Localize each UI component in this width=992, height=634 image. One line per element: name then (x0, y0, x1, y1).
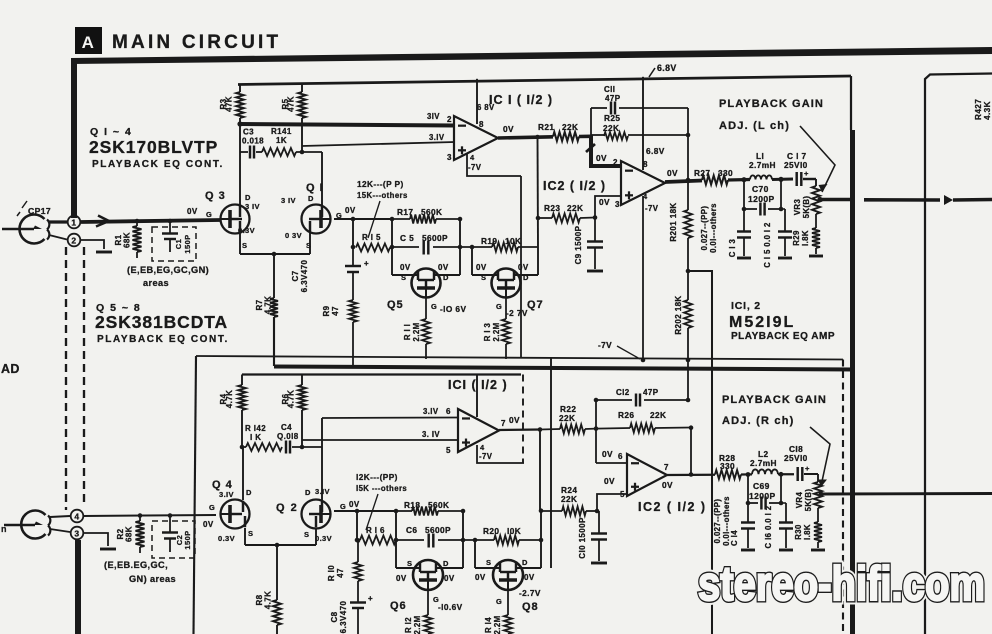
svg-text:C4: C4 (281, 423, 292, 432)
svg-text:G: G (340, 502, 346, 511)
svg-text:0V: 0V (349, 500, 360, 509)
svg-text:6.8V: 6.8V (657, 63, 677, 73)
svg-text:IC2 ( I/2 ): IC2 ( I/2 ) (543, 179, 606, 193)
Q4 drain wire (242, 447, 244, 500)
svg-text:stereo-hifi.com: stereo-hifi.com (698, 558, 985, 611)
capacitor C69 1200P row (747, 475, 749, 504)
6.8V stub to IC1 (476, 79, 478, 124)
svg-text:25VI0: 25VI0 (784, 453, 808, 463)
svg-text:3.IV: 3.IV (219, 490, 234, 499)
resistor R7 4.7K (273, 254, 275, 298)
svg-text:2.2M: 2.2M (412, 323, 421, 342)
pin5 wire from R6 (302, 439, 458, 441)
svg-text:D: D (443, 273, 449, 282)
svg-text:4: 4 (74, 512, 79, 522)
svg-text:S: S (242, 241, 247, 250)
svg-text:S: S (481, 273, 486, 282)
svg-text:R29: R29 (792, 230, 801, 246)
thick common bus (274, 365, 855, 372)
svg-text:22K: 22K (650, 410, 666, 420)
svg-text:0V: 0V (604, 476, 615, 486)
svg-text:2.7mH: 2.7mH (749, 160, 776, 170)
svg-text:R I42: R I42 (245, 424, 266, 433)
op-amp IC1 1/2 L (454, 116, 498, 160)
svg-text:2.2M: 2.2M (413, 616, 422, 634)
svg-text:2: 2 (613, 158, 618, 167)
svg-text:C I6 0.0 I 2: C I6 0.0 I 2 (764, 505, 773, 548)
svg-text:D: D (245, 193, 251, 202)
svg-text:3 IV: 3 IV (281, 196, 296, 205)
resistor R11 2.2M (425, 297, 427, 319)
right block box edge (925, 74, 992, 634)
IC1 pin4 connector (467, 154, 521, 176)
ground from node 2 (80, 240, 104, 249)
svg-text:C I 5 0.0 I 2: C I 5 0.0 I 2 (763, 222, 772, 268)
C5 box left vertical (391, 219, 393, 275)
svg-text:5600P: 5600P (422, 233, 448, 243)
pin4 column to -7V bus (642, 196, 644, 360)
svg-text:47K: 47K (287, 96, 296, 112)
svg-text:Q6: Q6 (390, 600, 407, 612)
svg-text:PLAYBACK EQ AMP: PLAYBACK EQ AMP (731, 331, 835, 342)
svg-text:47: 47 (331, 306, 340, 316)
svg-text:R19: R19 (481, 236, 497, 246)
resistor R12 2.2M (427, 590, 429, 615)
Q7 box right vertical (537, 247, 539, 275)
svg-text:G: G (431, 302, 437, 311)
svg-text:2.2M: 2.2M (493, 616, 502, 634)
transistor Q3 (221, 205, 250, 234)
svg-text:D: D (246, 488, 252, 497)
svg-text:Q 2: Q 2 (276, 502, 298, 514)
watermark stereo-hifi.com (698, 558, 985, 611)
svg-text:R I4: R I4 (484, 617, 493, 633)
node 3 (71, 527, 84, 540)
svg-text:IC I ( I/2 ): IC I ( I/2 ) (489, 93, 553, 107)
svg-text:R26: R26 (618, 410, 634, 420)
svg-text:0V: 0V (396, 574, 407, 583)
branch wire to R-ch C12 row (688, 271, 712, 634)
svg-text:0V: 0V (203, 520, 214, 529)
6.8V feed line to IC2 pin8 (642, 77, 644, 170)
svg-text:4.3K: 4.3K (983, 101, 992, 120)
dashed link lines between channels (65, 247, 67, 510)
output column to gate row (537, 137, 540, 247)
svg-text:PLAYBACK EQ CONT.: PLAYBACK EQ CONT. (97, 334, 229, 345)
svg-text:2: 2 (447, 115, 452, 124)
dashed column to rail R (522, 375, 524, 464)
wire R23 to pin3 (595, 196, 621, 218)
svg-text:47: 47 (336, 568, 345, 578)
svg-text:22K: 22K (559, 413, 575, 423)
svg-text:5K(B): 5K(B) (804, 489, 813, 512)
svg-text:2: 2 (71, 236, 76, 246)
channel box right edge vertical dashed (842, 360, 844, 634)
inner box right edge vertical (850, 76, 852, 130)
svg-text:0V: 0V (524, 573, 535, 582)
svg-text:C8: C8 (330, 611, 339, 622)
column R6 4.7K (301, 375, 303, 386)
svg-text:0V: 0V (509, 415, 520, 425)
svg-text:AD: AD (1, 362, 20, 376)
svg-text:C6: C6 (406, 525, 417, 535)
svg-text:C I4: C I4 (730, 530, 739, 546)
svg-text:3.IV: 3.IV (429, 133, 445, 142)
node 2 (68, 234, 81, 247)
capacitor C7 6.3V470 polarized (352, 247, 354, 265)
svg-text:4.7K: 4.7K (264, 591, 273, 610)
svg-text:4.7K: 4.7K (287, 390, 296, 409)
svg-text:0V: 0V (503, 124, 514, 134)
wires jack to nodes (49, 220, 67, 223)
svg-text:-IO 6V: -IO 6V (440, 304, 466, 314)
svg-text:68K: 68K (125, 526, 134, 542)
svg-text:M52I9L: M52I9L (729, 314, 795, 331)
signal wire R input (83, 515, 216, 516)
capacitor C2 150P dashed box (152, 521, 195, 558)
svg-text:R20: R20 (483, 526, 499, 536)
section label box A (75, 27, 102, 54)
transistor Q8 with box (475, 567, 500, 569)
resistor R9 47 (352, 272, 354, 300)
svg-text:4: 4 (470, 153, 475, 162)
potentiometer VR4 5K B (817, 474, 819, 482)
svg-text:C9 1500P: C9 1500P (574, 225, 583, 264)
op-amp IC2 1/2 R (627, 454, 667, 496)
svg-text:CI0 1500P: CI0 1500P (578, 517, 587, 559)
svg-text:+: + (804, 169, 809, 178)
capacitor C8 6.3V470 (357, 581, 359, 602)
R output line (821, 492, 992, 495)
svg-text:C 5: C 5 (400, 233, 414, 243)
R26 column to output row (690, 428, 692, 475)
6.8V stub to IC1R (476, 375, 478, 418)
wire source row Q3-Q1 (239, 233, 241, 254)
svg-text:G: G (496, 302, 502, 311)
svg-text:12K---(P P): 12K---(P P) (357, 179, 404, 189)
svg-text:I.8K: I.8K (803, 524, 812, 540)
C5 box right vertical (459, 219, 461, 275)
svg-text:PLAYBACK GAIN: PLAYBACK GAIN (719, 98, 824, 110)
svg-text:4: 4 (480, 443, 485, 452)
svg-text:PLAYBACK GAIN: PLAYBACK GAIN (722, 394, 827, 406)
svg-text:+: + (368, 594, 373, 603)
svg-text:VR4: VR4 (795, 492, 804, 509)
svg-text:Q7: Q7 (527, 299, 544, 311)
svg-text:Q5: Q5 (387, 299, 404, 311)
column IC1 pin4 to -7V bus (520, 176, 522, 358)
svg-text:0V: 0V (602, 449, 613, 459)
gate row wire L (334, 218, 392, 220)
thick corner into IC2 pin2 (589, 135, 621, 168)
svg-text:5: 5 (620, 490, 625, 499)
svg-text:6.8V: 6.8V (646, 146, 665, 156)
IC2R output wire (667, 474, 715, 477)
resistor R29 1.8K (812, 228, 820, 248)
op-amp IC2 1/2 L (621, 161, 665, 205)
column R3 47K (239, 85, 241, 93)
supply rail 6.8V top (238, 76, 851, 85)
capacitor C13 (743, 209, 745, 231)
svg-text:-7V: -7V (598, 340, 612, 350)
svg-text:R I 5: R I 5 (362, 233, 381, 242)
Q2 drain column (321, 447, 323, 500)
svg-text:R30: R30 (794, 524, 803, 540)
svg-text:S: S (401, 273, 406, 282)
svg-text:2SK170BLVTP: 2SK170BLVTP (89, 137, 218, 157)
pin6 jog column (595, 400, 597, 463)
svg-text:0.0I---others: 0.0I---others (722, 496, 731, 546)
svg-text:-2 7V: -2 7V (506, 308, 528, 318)
transistor Q2 (302, 500, 331, 529)
svg-text:R141: R141 (271, 127, 292, 136)
wire Q1 drain column (321, 152, 323, 205)
transistor Q6 with box (396, 567, 420, 569)
svg-text:D: D (522, 558, 528, 567)
svg-text:Q 3: Q 3 (205, 190, 226, 202)
svg-text:D: D (523, 273, 529, 282)
op-amp IC1 1/2 R (458, 409, 499, 452)
column to R16 (356, 511, 358, 540)
capacitor C10 1500P (598, 511, 600, 533)
svg-text:2SK381BCDTA: 2SK381BCDTA (95, 312, 228, 332)
svg-text:CII: CII (604, 85, 615, 94)
transistor Q5 with box (392, 274, 418, 276)
connector jack R (21, 510, 45, 538)
svg-text:S: S (248, 529, 253, 538)
svg-text:0V: 0V (438, 263, 449, 272)
svg-text:3IV: 3IV (427, 112, 440, 121)
svg-text:ICI, 2: ICI, 2 (731, 300, 761, 312)
svg-text:8: 8 (643, 160, 648, 169)
svg-text:C70: C70 (752, 184, 769, 194)
svg-text:0V: 0V (662, 480, 673, 490)
svg-text:I.8K: I.8K (801, 230, 810, 246)
svg-text:I5K ---others: I5K ---others (356, 484, 407, 493)
C6 box right vertical (462, 511, 464, 568)
svg-text:68K: 68K (123, 232, 132, 248)
svg-text:7: 7 (501, 419, 506, 428)
svg-text:4.7K: 4.7K (264, 296, 273, 315)
svg-text:1: 1 (71, 218, 76, 228)
svg-text:ADJ. (R ch): ADJ. (R ch) (722, 415, 794, 427)
svg-text:G: G (206, 210, 212, 219)
gate row wire R (334, 510, 396, 512)
svg-text:150P: 150P (183, 530, 192, 549)
svg-text:22K: 22K (561, 494, 577, 504)
signal wire L input thick (81, 220, 220, 222)
svg-text:C I 3: C I 3 (728, 239, 737, 258)
svg-text:VR3: VR3 (793, 199, 802, 216)
transistor Q4 (221, 500, 250, 529)
adj arrow to VR3 wiper (800, 126, 835, 192)
svg-text:1K: 1K (276, 136, 287, 145)
svg-text:0.3V: 0.3V (218, 534, 235, 543)
svg-text:5K(B): 5K(B) (802, 196, 811, 219)
svg-text:0V: 0V (475, 573, 486, 582)
svg-text:0V: 0V (444, 574, 455, 583)
IC2 output thick wire (665, 181, 702, 183)
wire R202 bottom to C12 row (687, 360, 689, 400)
svg-text:4.7K: 4.7K (225, 390, 234, 409)
resistor R14 2.2M (507, 590, 509, 615)
svg-text:S: S (407, 559, 412, 568)
column R5 47K (301, 84, 303, 92)
IC1R pin4 connector (477, 445, 524, 463)
svg-text:(E,EB.EG,GC,: (E,EB.EG,GC, (104, 560, 168, 570)
bottom channel supply rail (242, 373, 521, 375)
svg-text:I0K: I0K (507, 526, 521, 536)
svg-text:S: S (304, 530, 309, 539)
svg-text:5: 5 (446, 446, 451, 455)
svg-text:R201 18K: R201 18K (669, 202, 678, 241)
svg-text:7: 7 (664, 463, 669, 472)
svg-text:-I0.6V: -I0.6V (438, 602, 463, 612)
svg-text:R427: R427 (974, 99, 983, 120)
outer border left thick (71, 58, 77, 218)
wire Q3 drain column (239, 124, 241, 205)
capacitor C70 1200P row (743, 180, 745, 209)
svg-text:330: 330 (718, 168, 733, 178)
L output line dashed thick (820, 198, 852, 202)
capacitor C15 0.012 (781, 208, 785, 210)
svg-text:I K: I K (250, 433, 261, 442)
svg-text:3: 3 (615, 200, 620, 209)
svg-text:-7V: -7V (479, 452, 493, 461)
svg-text:S: S (486, 558, 491, 567)
svg-text:A: A (82, 33, 95, 52)
svg-text:C69: C69 (753, 481, 770, 491)
svg-text:Q I: Q I (306, 182, 324, 194)
svg-text:47P: 47P (643, 388, 659, 397)
svg-text:6.3V470: 6.3V470 (339, 601, 348, 634)
svg-text:0.3V: 0.3V (315, 534, 332, 543)
svg-text:C7: C7 (291, 270, 300, 281)
svg-text:n: n (1, 524, 7, 534)
source row Q4-Q2 (244, 528, 246, 545)
svg-text:3.IV: 3.IV (423, 407, 439, 416)
svg-text:D: D (305, 488, 311, 497)
resistor R10 47 (356, 538, 361, 543)
svg-text:Q.0I8: Q.0I8 (277, 432, 299, 441)
svg-text:CI2: CI2 (616, 388, 630, 397)
channel box left edge vertical (194, 356, 197, 634)
svg-text:3 IV: 3 IV (245, 202, 260, 211)
svg-text:R I 3: R I 3 (483, 323, 492, 342)
svg-text:0.0I---others: 0.0I---others (709, 203, 718, 253)
svg-text:R23: R23 (544, 203, 560, 213)
svg-text:G: G (209, 503, 215, 512)
svg-text:0.027--(PP): 0.027--(PP) (700, 206, 709, 251)
svg-text:R I2: R I2 (404, 617, 413, 633)
svg-text:+: + (364, 259, 369, 268)
svg-text:0V: 0V (667, 168, 678, 178)
svg-text:22K: 22K (567, 203, 583, 213)
svg-text:IC2 ( I/2 ): IC2 ( I/2 ) (638, 500, 707, 514)
svg-text:R9: R9 (322, 305, 331, 316)
C6 box left vertical (395, 511, 397, 568)
svg-text:6.3V470: 6.3V470 (300, 260, 309, 293)
pin5 jog R (597, 494, 627, 511)
svg-text:3.IV: 3.IV (315, 487, 330, 496)
svg-text:0V: 0V (599, 197, 610, 207)
transistor Q1 (302, 205, 331, 234)
adj arrow to VR4 wiper (810, 427, 830, 486)
svg-text:8: 8 (479, 120, 484, 129)
svg-text:0V: 0V (476, 263, 487, 272)
svg-text:0V: 0V (596, 153, 607, 163)
svg-text:C3: C3 (243, 128, 254, 137)
svg-text:C1: C1 (174, 239, 183, 249)
pin6 wire (321, 418, 323, 447)
svg-text:CP17: CP17 (28, 206, 51, 216)
svg-text:Q8: Q8 (522, 601, 539, 613)
outer border left lower thick segment (75, 540, 81, 634)
capacitor C1 150P dashed box (152, 227, 196, 261)
svg-text:R21: R21 (538, 122, 554, 132)
svg-text:2.7mH: 2.7mH (750, 458, 777, 468)
thick trace to IC1 pin2 (240, 124, 455, 126)
-7V mid bus line (196, 356, 843, 360)
svg-text:MAIN CIRCUIT: MAIN CIRCUIT (112, 32, 281, 53)
svg-text:GN) areas: GN) areas (129, 574, 176, 584)
svg-text:areas: areas (143, 278, 169, 288)
capacitor C9 1500P (594, 218, 596, 242)
node 1 (68, 216, 81, 229)
svg-text:0.018: 0.018 (242, 137, 264, 146)
svg-text:47K: 47K (225, 96, 234, 112)
ground from node 3 (83, 533, 108, 546)
capacitor C14 (747, 503, 749, 522)
svg-text:0V: 0V (518, 263, 529, 272)
svg-text:3. IV: 3. IV (422, 430, 440, 439)
capacitor C16 0.012 (781, 502, 786, 504)
resistor R13 2.2M (505, 297, 507, 319)
svg-text:0.027--(PP): 0.027--(PP) (713, 499, 722, 544)
Q7 box left vertical (471, 247, 473, 275)
svg-text:R I0: R I0 (327, 565, 336, 581)
potentiometer VR3 5K B (815, 179, 817, 186)
svg-text:0V: 0V (187, 207, 198, 216)
svg-text:R25: R25 (604, 113, 620, 123)
svg-text:6: 6 (618, 452, 623, 461)
extra vertical line (550, 357, 552, 568)
svg-text:D: D (443, 559, 449, 568)
svg-text:PLAYBACK EQ CONT.: PLAYBACK EQ CONT. (92, 159, 224, 170)
Q8 box right vertical (540, 511, 542, 568)
svg-text:3: 3 (447, 153, 452, 162)
svg-text:0V: 0V (400, 263, 411, 272)
svg-text:47P: 47P (605, 94, 621, 103)
connector CP17 jack L (20, 215, 45, 244)
svg-text:G: G (496, 597, 502, 606)
output column R ch (539, 430, 541, 512)
column to R15 (352, 219, 354, 247)
Q8 box left vertical (474, 540, 476, 568)
svg-text:-2.7V: -2.7V (519, 588, 541, 598)
svg-text:-7V: -7V (645, 204, 659, 213)
svg-text:6 8V: 6 8V (477, 103, 495, 112)
svg-text:(E,EB,EG,GC,GN): (E,EB,EG,GC,GN) (127, 265, 209, 275)
svg-text:D: D (308, 194, 314, 203)
svg-text:6: 6 (446, 407, 451, 416)
IC1 output thick wire (498, 137, 553, 138)
svg-text:-7V: -7V (468, 163, 482, 172)
svg-text:I2K---(PP): I2K---(PP) (356, 472, 398, 482)
svg-text:R202 18K: R202 18K (674, 295, 683, 334)
svg-text:3: 3 (74, 529, 79, 539)
svg-text:0 3V: 0 3V (285, 231, 302, 240)
